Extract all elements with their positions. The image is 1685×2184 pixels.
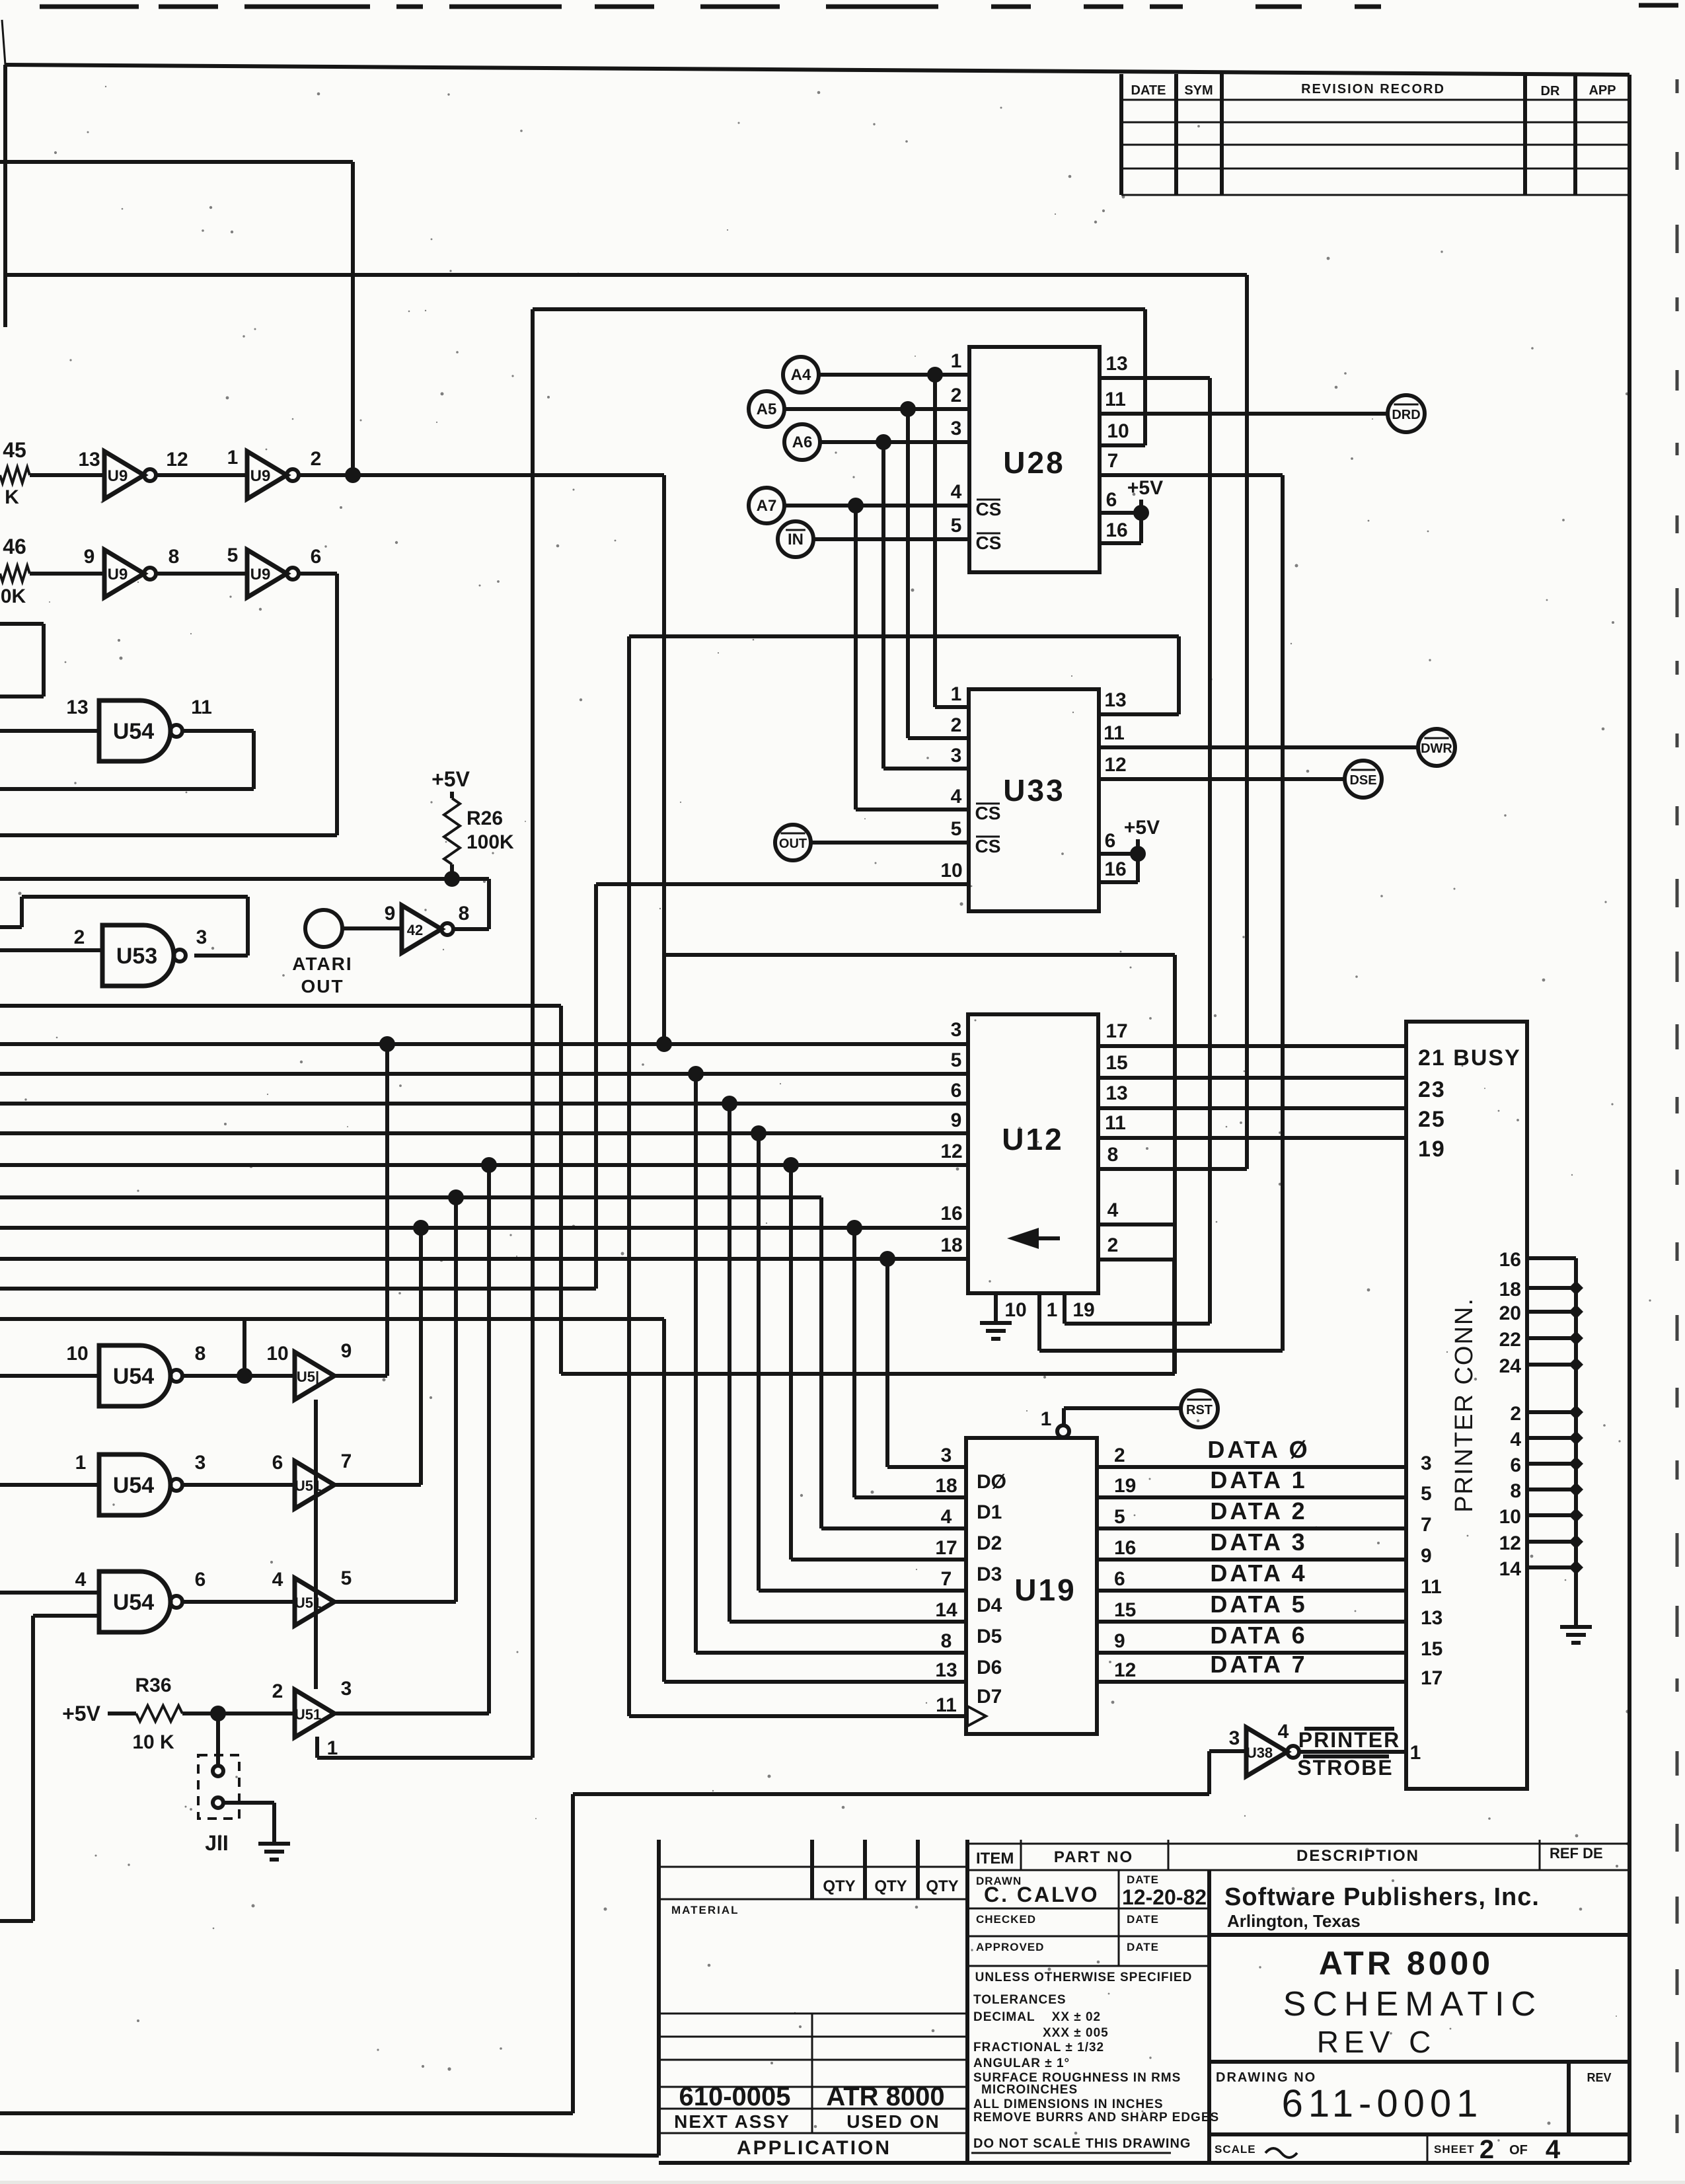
nand gate U53 pins 2-3 bbox=[74, 925, 207, 986]
wire: branch x=370 from bus line 11 to U54b output bbox=[243, 1319, 246, 1376]
svg-text:12: 12 bbox=[166, 449, 188, 471]
wire: U19 D5 output DATA 5 to printer connector pin 13 bbox=[1097, 1620, 1406, 1624]
junction at U9b output and x=534 drop bbox=[345, 467, 361, 483]
wire: U28 pin 13 to vertical x=1831 bbox=[1100, 376, 1210, 380]
wire: U28 pin 16 stub bbox=[1100, 541, 1141, 545]
svg-text:PRINTER: PRINTER bbox=[1298, 1728, 1400, 1752]
svg-text:REMOVE BURRS AND SHARP EDGES: REMOVE BURRS AND SHARP EDGES bbox=[973, 2111, 1219, 2125]
junction A7 net x=1295 bbox=[848, 498, 864, 513]
wire: U19 D1 output DATA 1 to printer connector pin 5 bbox=[1097, 1495, 1406, 1499]
wire: RST line y=2132 bbox=[1064, 1406, 1181, 1410]
svg-text:DWR: DWR bbox=[1421, 741, 1452, 756]
svg-text:REV C: REV C bbox=[1317, 2025, 1437, 2059]
svg-text:18: 18 bbox=[1499, 1279, 1521, 1300]
svg-text:U9: U9 bbox=[250, 467, 271, 485]
wire: U51c output riser to bus7 bbox=[334, 1600, 456, 1604]
wire: bus line 4 / U12 pin 6 net bbox=[0, 1102, 968, 1106]
svg-text:APPROVED: APPROVED bbox=[976, 1941, 1044, 1953]
title block: parts list and application block bbox=[659, 1840, 967, 2163]
svg-text:3: 3 bbox=[951, 1019, 962, 1041]
svg-text:DSE: DSE bbox=[1349, 773, 1376, 788]
svg-text:14: 14 bbox=[935, 1599, 957, 1621]
wire: U28 pin 7 to vertical x=1941 bbox=[1100, 473, 1283, 477]
svg-text:2: 2 bbox=[74, 926, 85, 948]
svg-text:16: 16 bbox=[1499, 1249, 1521, 1271]
svg-text:5: 5 bbox=[1421, 1483, 1432, 1505]
svg-text:12: 12 bbox=[940, 1141, 962, 1162]
wire: U28 pin 11 to node DRD bbox=[1100, 412, 1388, 416]
svg-text:12: 12 bbox=[1104, 754, 1126, 776]
svg-text:OF: OF bbox=[1509, 2143, 1528, 2158]
wire: U38 input from y=2715 line bbox=[1209, 1749, 1246, 1753]
svg-text:8: 8 bbox=[459, 903, 470, 924]
svg-text:U54: U54 bbox=[113, 1473, 154, 1498]
svg-text:16: 16 bbox=[940, 1203, 962, 1224]
wire: IN to U28 pin 5 bbox=[813, 537, 969, 541]
svg-text:MATERIAL: MATERIAL bbox=[671, 1904, 739, 1916]
node DSE bbox=[1345, 761, 1382, 798]
svg-text:2: 2 bbox=[1510, 1403, 1521, 1425]
svg-text:9: 9 bbox=[84, 546, 95, 568]
svg-text:D4: D4 bbox=[977, 1595, 1002, 1616]
wire: U54a output loop to page edge bbox=[182, 729, 254, 733]
junction A5 net x=1374 bbox=[900, 401, 916, 417]
svg-text:U5|: U5| bbox=[297, 1369, 319, 1385]
wire: vertical x=1295 A7 net to U33 pin 4 bbox=[854, 506, 858, 810]
svg-text:10 K: 10 K bbox=[132, 1731, 174, 1753]
svg-text:Software Publishers, Inc.: Software Publishers, Inc. bbox=[1224, 1883, 1540, 1911]
wire: vertical x=1197 to U19 D3 bbox=[789, 1165, 793, 1560]
svg-text:25: 25 bbox=[1418, 1107, 1446, 1132]
svg-text:DATE: DATE bbox=[1131, 83, 1166, 98]
svg-text:1: 1 bbox=[951, 683, 962, 705]
svg-text:9: 9 bbox=[385, 903, 396, 924]
svg-text:2: 2 bbox=[1114, 1445, 1125, 1466]
frame: sheet right border bbox=[1628, 75, 1631, 2162]
wire: U19 D4 output DATA 4 to printer connector pin 11 bbox=[1097, 1589, 1406, 1593]
svg-text:OUT: OUT bbox=[301, 976, 344, 997]
buffer U51d pins 2-3 enable 1 bbox=[272, 1678, 352, 1759]
svg-text:4: 4 bbox=[1546, 2135, 1561, 2164]
svg-text:18: 18 bbox=[940, 1234, 962, 1256]
svg-text:8: 8 bbox=[1510, 1480, 1521, 1502]
svg-text:13: 13 bbox=[66, 697, 88, 718]
svg-text:STROBE: STROBE bbox=[1297, 1756, 1393, 1780]
svg-text:ALL DIMENSIONS IN INCHES: ALL DIMENSIONS IN INCHES bbox=[973, 2097, 1164, 2111]
svg-text:SHEET: SHEET bbox=[1434, 2143, 1475, 2156]
wire: U33 pin 12 to node DSE bbox=[1099, 777, 1345, 781]
wire: U19 D6 output DATA 6 to printer connector pin 15 bbox=[1097, 1651, 1406, 1655]
svg-text:U33: U33 bbox=[1003, 773, 1065, 808]
svg-text:17: 17 bbox=[1421, 1667, 1442, 1689]
wire: U9b output to vertical x=1005 bbox=[298, 473, 664, 477]
svg-text:U12: U12 bbox=[1002, 1122, 1063, 1156]
svg-text:17: 17 bbox=[1105, 1020, 1127, 1042]
wire: U51d output to riser x=740 bbox=[334, 1712, 489, 1715]
wire: U53 input 2 from page edge bbox=[0, 948, 102, 952]
wire: U53 feedback loop output to lower input bbox=[194, 954, 248, 958]
svg-text:U54: U54 bbox=[113, 719, 154, 744]
wire: long net A horizontal y=416 to U12 pin 8 bbox=[5, 273, 1247, 277]
svg-text:R26: R26 bbox=[467, 808, 503, 829]
wire: U9a output to U9b input bbox=[155, 473, 247, 477]
svg-text:DATA 5: DATA 5 bbox=[1210, 1591, 1307, 1618]
wire: vertical x=1148 to U19 D4 bbox=[757, 1133, 761, 1591]
junction bus8 x=637 bbox=[413, 1220, 429, 1236]
connector J11 (jumper) bbox=[198, 1755, 239, 1819]
wire: U28 pin 6 stub bbox=[1100, 511, 1141, 515]
svg-text:13: 13 bbox=[1104, 689, 1126, 711]
svg-text:U51: U51 bbox=[295, 1706, 321, 1723]
svg-text:A7: A7 bbox=[757, 497, 777, 515]
wire: vertical x=902 from U33 pin 10 to bus line 10 bbox=[594, 884, 598, 1289]
inverter U9b pins 1-2 bbox=[227, 447, 322, 499]
wire: U51 enable chain vertical bbox=[314, 1400, 318, 1689]
wire: U12 pin 8 stub bbox=[1098, 1167, 1247, 1171]
ground at U12 pin 10 bbox=[980, 1321, 1012, 1325]
wire: U54a input 13 from page edge bbox=[0, 729, 99, 733]
wire: horizontal y=3198 to page edge bbox=[0, 2111, 573, 2115]
svg-text:TOLERANCES: TOLERANCES bbox=[973, 1993, 1067, 2007]
nand gate U54b pins 10-8 bbox=[66, 1343, 206, 1406]
svg-text:3: 3 bbox=[941, 1445, 952, 1466]
svg-text:QTY: QTY bbox=[874, 1877, 907, 1895]
wire: connector ground bus vertical x=2385 bbox=[1574, 1258, 1578, 1626]
svg-text:RST: RST bbox=[1186, 1403, 1213, 1417]
svg-text:16: 16 bbox=[1105, 519, 1127, 541]
junction bus5 x=1148 bbox=[751, 1125, 767, 1141]
wire: vertical x=1243 to U19 D2 bbox=[819, 1197, 823, 1528]
svg-text:U54: U54 bbox=[113, 1364, 154, 1389]
wire: bus line 10 to U33 pin 10 bbox=[0, 1287, 596, 1291]
svg-text:4: 4 bbox=[75, 1569, 87, 1591]
svg-text:ITEM: ITEM bbox=[976, 1850, 1014, 1867]
svg-text:1: 1 bbox=[951, 350, 962, 372]
junction bus6 x=740 bbox=[481, 1157, 497, 1173]
svg-text:DRD: DRD bbox=[1392, 408, 1420, 422]
wire: A6 to U28 pin 3 bbox=[820, 440, 969, 444]
svg-text:NEXT ASSY: NEXT ASSY bbox=[674, 2111, 790, 2132]
wire: U12 pin 17 to printer connector 21 bbox=[1098, 1044, 1406, 1048]
svg-text:6: 6 bbox=[1114, 1568, 1125, 1590]
wire: R36 to U51d input bbox=[182, 1712, 295, 1715]
wire: U33 pin 6 stub bbox=[1099, 852, 1138, 856]
wire: U51d enable horizontal y=2660 bbox=[317, 1756, 533, 1760]
wire: vertical x=1293 to U19 D1 bbox=[852, 1228, 856, 1497]
svg-text:DATA 4: DATA 4 bbox=[1210, 1560, 1307, 1587]
svg-text:1: 1 bbox=[227, 447, 239, 469]
svg-text:15: 15 bbox=[1421, 1638, 1442, 1660]
wire: U51b output riser to bus8 bbox=[334, 1483, 421, 1487]
svg-text:9: 9 bbox=[1421, 1545, 1432, 1567]
node IN bbox=[778, 521, 813, 557]
clock triangle at U19 pin 11 bbox=[967, 1706, 986, 1726]
svg-text:4: 4 bbox=[951, 786, 962, 808]
junction at x=1005 on U12 pin 3 net bbox=[656, 1036, 672, 1052]
junction bus4 x=1104 bbox=[722, 1096, 737, 1111]
svg-text:6: 6 bbox=[1106, 489, 1117, 511]
wire: bus line 6 / U12 pin 12 net bbox=[0, 1163, 968, 1167]
inverter U9a pins 13-12 bbox=[78, 449, 188, 499]
wire: U38 output PRINTER STROBE to connector pin 1 bbox=[1298, 1750, 1406, 1754]
svg-text:DECIMAL XX ± 02: DECIMAL XX ± 02 bbox=[973, 2010, 1101, 2024]
ic U12 bbox=[968, 1014, 1098, 1293]
wire: U51d enable pin 1 stub down bbox=[315, 1737, 319, 1758]
svg-text:XXX ± 005: XXX ± 005 bbox=[1043, 2026, 1109, 2040]
wire: U12 pin 11 to printer connector 19 bbox=[1098, 1136, 1406, 1140]
svg-text:ATR 8000: ATR 8000 bbox=[826, 2082, 944, 2111]
inverter U9d pins 5-6 bbox=[227, 545, 322, 597]
svg-text:REF DE: REF DE bbox=[1550, 1845, 1603, 1862]
node A6 bbox=[784, 424, 820, 460]
wire: vertical x=1053 to U19 D6 bbox=[694, 1074, 698, 1653]
wire: horizontal y=963 from x=952 to U33 pin 13 riser bbox=[629, 634, 1179, 638]
svg-text:IN: IN bbox=[788, 531, 804, 548]
svg-text:13: 13 bbox=[1421, 1607, 1442, 1629]
svg-text:U54: U54 bbox=[113, 1590, 154, 1615]
wire: branch y=1445 from x=1005 to x=1778 bbox=[664, 953, 1175, 957]
svg-text:13: 13 bbox=[935, 1659, 957, 1681]
inverter U38 pins 3-4 bbox=[1229, 1721, 1299, 1776]
svg-text:6: 6 bbox=[1105, 830, 1116, 852]
svg-text:K: K bbox=[5, 486, 19, 508]
svg-text:U53: U53 bbox=[116, 944, 157, 969]
svg-text:6: 6 bbox=[311, 546, 322, 568]
wire: vertical x=1005 from U9b output to U12 pin 3 net bbox=[662, 475, 666, 1044]
svg-text:DATE: DATE bbox=[1127, 1873, 1159, 1886]
junction U28 +5V bbox=[1133, 505, 1149, 521]
svg-text:21 BUSY: 21 BUSY bbox=[1418, 1045, 1521, 1071]
svg-text:DATA 7: DATA 7 bbox=[1210, 1651, 1307, 1678]
svg-text:12: 12 bbox=[1114, 1659, 1136, 1681]
svg-text:13: 13 bbox=[78, 449, 100, 471]
connector PRINTER CONN bbox=[1406, 1022, 1527, 1789]
svg-text:Arlington, Texas: Arlington, Texas bbox=[1227, 1911, 1361, 1931]
svg-text:6: 6 bbox=[1510, 1454, 1521, 1476]
svg-text:2: 2 bbox=[1107, 1234, 1119, 1256]
wire: vertical x=1374 A5 net to U33 pin 2 bbox=[906, 409, 910, 738]
wire: J11 upper pin to R36 net bbox=[216, 1713, 220, 1766]
svg-text:U19: U19 bbox=[1014, 1573, 1076, 1607]
wire: page top edge scan marks bbox=[40, 5, 1678, 7]
svg-text:15: 15 bbox=[1105, 1052, 1127, 1074]
wire: vertical drop x=534 to U9b output line bbox=[351, 162, 355, 475]
svg-text:5: 5 bbox=[951, 818, 962, 840]
wire: horizontal y=1264 return to page edge bbox=[0, 833, 337, 837]
svg-text:3: 3 bbox=[951, 418, 962, 439]
resistor R36 10K bbox=[108, 1712, 136, 1715]
junction bus3 x=1053 bbox=[688, 1066, 704, 1082]
wire: vertical x=1104 to U19 D5 bbox=[728, 1104, 731, 1622]
wire: vertical x=849 from bus line 1 down to y=2079 bbox=[559, 1006, 563, 1374]
buffer U51b pins 6-7 bbox=[272, 1450, 352, 1509]
svg-text:PART NO: PART NO bbox=[1054, 1848, 1133, 1866]
wire: vertical x=952 from y=963 down to U19 pin 11 bbox=[627, 636, 631, 1716]
svg-text:DATA 2: DATA 2 bbox=[1210, 1497, 1307, 1525]
svg-text:SCALE: SCALE bbox=[1215, 2143, 1256, 2156]
svg-text:CS: CS bbox=[975, 803, 1001, 823]
svg-text:11: 11 bbox=[936, 1694, 957, 1716]
svg-text:REVISION RECORD: REVISION RECORD bbox=[1301, 82, 1445, 96]
svg-text:2: 2 bbox=[951, 385, 962, 406]
wire: R46 to U9c input bbox=[30, 572, 104, 576]
buffer U51a pins 10-9 bbox=[266, 1340, 352, 1400]
svg-text:DATE: DATE bbox=[1127, 1941, 1159, 1953]
svg-text:ATR 8000: ATR 8000 bbox=[1319, 1945, 1493, 1982]
svg-text:7: 7 bbox=[1107, 450, 1119, 472]
ic U28 bbox=[969, 347, 1100, 572]
svg-text:DATE: DATE bbox=[1127, 1913, 1159, 1926]
svg-text:C. CALVO: C. CALVO bbox=[984, 1883, 1100, 1906]
svg-text:19: 19 bbox=[1072, 1299, 1094, 1321]
svg-text:1: 1 bbox=[1041, 1408, 1052, 1430]
svg-text:1: 1 bbox=[327, 1737, 338, 1759]
svg-text:DATA 6: DATA 6 bbox=[1210, 1622, 1307, 1649]
wire: vertical x=1005 from bus line 11 to U19 D7 bbox=[662, 1319, 666, 1682]
wire: U28 pin 10 stub bbox=[1100, 443, 1145, 447]
node ATARI OUT bbox=[305, 910, 342, 947]
svg-text:4: 4 bbox=[1107, 1199, 1119, 1221]
svg-text:ANGULAR ± 1°: ANGULAR ± 1° bbox=[973, 2056, 1070, 2070]
svg-text:18: 18 bbox=[935, 1475, 957, 1497]
svg-text:611-0001: 611-0001 bbox=[1282, 2082, 1483, 2125]
svg-text:2: 2 bbox=[272, 1680, 283, 1702]
wire: U54b output to U51a input bbox=[182, 1374, 295, 1378]
svg-text:D1: D1 bbox=[977, 1501, 1002, 1523]
svg-text:+5V: +5V bbox=[1127, 477, 1163, 499]
svg-text:U9: U9 bbox=[108, 467, 128, 485]
svg-text:3: 3 bbox=[195, 1452, 206, 1474]
svg-text:CHECKED: CHECKED bbox=[976, 1913, 1036, 1926]
wire: vertical x=1343 to U19 D0 bbox=[885, 1259, 889, 1467]
svg-text:3: 3 bbox=[951, 745, 962, 767]
wire: vertical x=50 down to page edge exit y=2907 bbox=[31, 1616, 35, 1921]
svg-text:12: 12 bbox=[1499, 1532, 1521, 1554]
node A7 bbox=[749, 488, 784, 523]
svg-text:DR: DR bbox=[1541, 84, 1560, 98]
junction A6 net x=1337 bbox=[876, 434, 891, 450]
wire: bus line 11 to U19 D7 bbox=[0, 1317, 664, 1321]
svg-text:SCHEMATIC: SCHEMATIC bbox=[1283, 1985, 1542, 2023]
wire: U54c input bbox=[0, 1483, 99, 1487]
wire: right page edge marks bbox=[1676, 79, 1679, 2133]
svg-text:10: 10 bbox=[1499, 1506, 1521, 1528]
svg-text:7: 7 bbox=[1421, 1514, 1432, 1536]
svg-text:5: 5 bbox=[341, 1567, 352, 1589]
svg-text:16: 16 bbox=[1114, 1537, 1136, 1559]
junction R36 net at J11 tap bbox=[210, 1706, 226, 1721]
svg-text:45: 45 bbox=[3, 438, 26, 462]
svg-text:12-20-82: 12-20-82 bbox=[1122, 1885, 1207, 1909]
ic U33 bbox=[969, 689, 1099, 911]
svg-text:1: 1 bbox=[1047, 1299, 1058, 1321]
svg-text:3: 3 bbox=[196, 926, 207, 948]
wire: OUT to U33 pin 5 bbox=[811, 841, 969, 845]
wire: A5 to U28 pin 2 bbox=[784, 407, 969, 411]
svg-text:8: 8 bbox=[195, 1343, 206, 1365]
svg-text:13: 13 bbox=[1105, 1082, 1127, 1104]
node A5 bbox=[749, 391, 784, 427]
wire: R45 to U9a input bbox=[30, 473, 104, 477]
svg-text:CS: CS bbox=[975, 836, 1001, 856]
resistor R26 100K bbox=[444, 798, 460, 864]
nand gate U54a pins 13-11 bbox=[66, 697, 212, 761]
wire: U33 pin 11 to node DWR bbox=[1099, 745, 1418, 749]
svg-text:+5V: +5V bbox=[1124, 817, 1160, 839]
svg-text:7: 7 bbox=[341, 1450, 352, 1472]
buffer U51c pins 4-5 bbox=[272, 1567, 352, 1626]
resistor R46 (cut at page edge) bbox=[0, 566, 30, 582]
svg-text:DATA Ø: DATA Ø bbox=[1207, 1436, 1310, 1463]
junction bus2 x=586 bbox=[379, 1036, 395, 1052]
svg-text:A4: A4 bbox=[791, 366, 811, 384]
svg-text:20: 20 bbox=[1499, 1302, 1521, 1324]
svg-text:D6: D6 bbox=[977, 1657, 1002, 1678]
svg-text:11: 11 bbox=[1104, 722, 1125, 744]
svg-text:QTY: QTY bbox=[926, 1877, 958, 1895]
wire: inverter 42 output to x=740 bbox=[453, 927, 489, 931]
svg-text:D2: D2 bbox=[977, 1532, 1002, 1554]
svg-text:19: 19 bbox=[1114, 1475, 1136, 1497]
junction bus7 x=690 bbox=[448, 1189, 464, 1205]
inverter 42 pins 9-8 bbox=[385, 903, 470, 953]
wire: U19 D3 output DATA 3 to printer connector pin 9 bbox=[1097, 1558, 1406, 1562]
svg-text:D5: D5 bbox=[977, 1626, 1002, 1647]
svg-text:11: 11 bbox=[191, 697, 212, 718]
junction bus9 x=1343 bbox=[880, 1251, 895, 1267]
junction on U54b output bbox=[237, 1368, 252, 1384]
svg-text:+5V: +5V bbox=[62, 1702, 100, 1725]
wire: bus line 7 to U19 D2 bbox=[0, 1195, 821, 1199]
svg-text:24: 24 bbox=[1499, 1355, 1522, 1377]
node OUT bbox=[775, 825, 811, 860]
svg-text:22: 22 bbox=[1499, 1329, 1521, 1351]
wire: U54d lower input from x=50 riser bbox=[33, 1614, 99, 1618]
frame: sheet left border bbox=[3, 65, 7, 327]
wire: bus line 5 / U12 pin 9 net bbox=[0, 1131, 968, 1135]
svg-text:DATA 1: DATA 1 bbox=[1210, 1466, 1307, 1493]
wire: vertical x=1941 from U28 pin 7 down to U12 pin 1 row bbox=[1281, 475, 1285, 1351]
svg-text:DESCRIPTION: DESCRIPTION bbox=[1296, 1847, 1419, 1865]
wire: ATARI OUT net horizontal y=1330 to page edge bbox=[0, 877, 489, 881]
svg-text:U38: U38 bbox=[1246, 1745, 1273, 1761]
svg-text:DO NOT SCALE THIS DRAWING: DO NOT SCALE THIS DRAWING bbox=[973, 2136, 1191, 2151]
svg-text:7: 7 bbox=[941, 1568, 952, 1590]
wire: U9d output loop right and down to y=1264 bbox=[298, 572, 337, 576]
U19 pin 1 bubble bbox=[1057, 1425, 1069, 1437]
svg-text:100K: 100K bbox=[467, 831, 514, 853]
svg-text:UNLESS OTHERWISE SPECIFIED: UNLESS OTHERWISE SPECIFIED bbox=[975, 1971, 1193, 1984]
svg-text:1: 1 bbox=[1410, 1742, 1421, 1764]
wire: U12 pin 1 stub down to y=2044 bbox=[1037, 1293, 1041, 1351]
svg-text:FRACTIONAL ± 1/32: FRACTIONAL ± 1/32 bbox=[973, 2041, 1104, 2054]
svg-text:QTY: QTY bbox=[823, 1877, 855, 1895]
wire: U33 pin 13 to riser x=1784 bbox=[1099, 712, 1179, 716]
svg-text:10: 10 bbox=[1107, 420, 1129, 442]
junction bus6 x=1197 bbox=[783, 1157, 799, 1173]
svg-text:A6: A6 bbox=[792, 433, 813, 451]
wire: U51a output riser to bus2 bbox=[334, 1374, 387, 1378]
wire: A7 to U28 pin 4 bbox=[784, 504, 969, 508]
junction bus8 x=1293 bbox=[846, 1220, 862, 1236]
svg-text:19: 19 bbox=[1418, 1137, 1446, 1162]
svg-text:8: 8 bbox=[1107, 1144, 1119, 1166]
svg-text:A5: A5 bbox=[757, 400, 777, 418]
svg-text:9: 9 bbox=[951, 1110, 962, 1131]
svg-text:4: 4 bbox=[1510, 1429, 1521, 1450]
svg-text:U9: U9 bbox=[108, 566, 128, 584]
junction A4 net x=1415 bbox=[927, 367, 943, 383]
